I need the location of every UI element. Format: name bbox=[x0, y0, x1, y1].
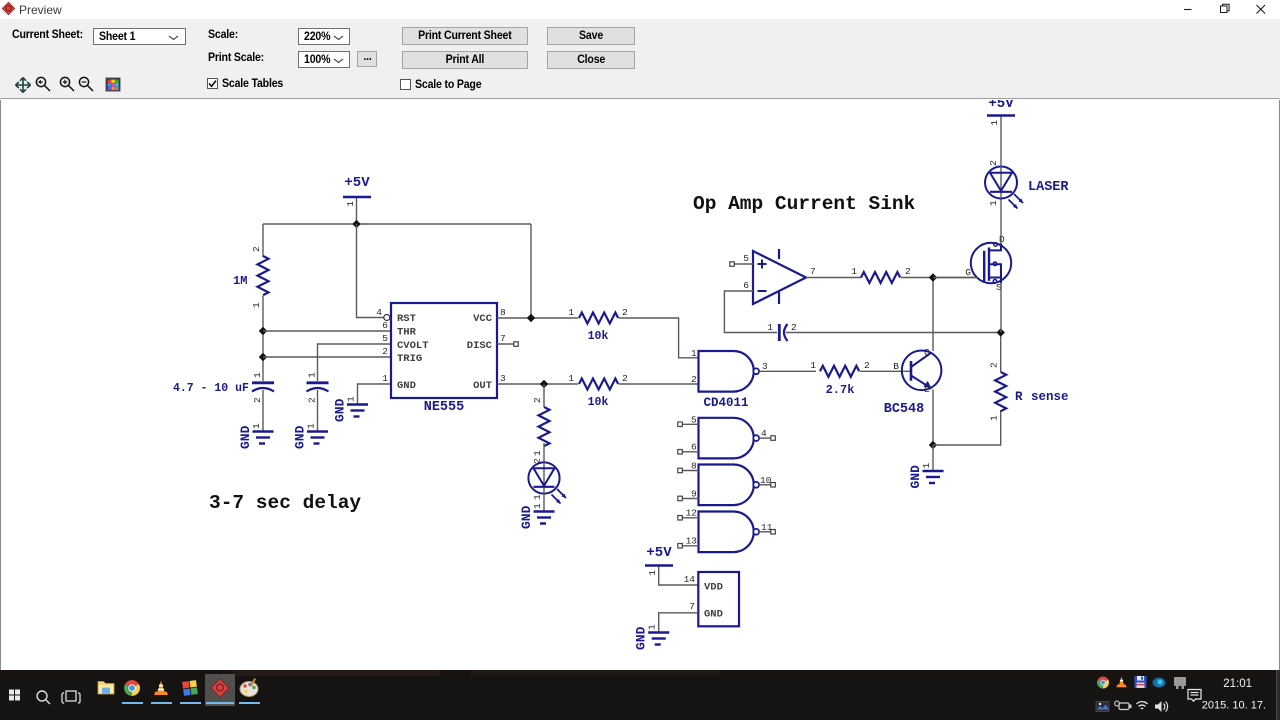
svg-text:1: 1 bbox=[647, 570, 658, 576]
svg-text:LASER: LASER bbox=[1028, 180, 1069, 195]
wire C3 to source node bbox=[786, 332, 1001, 334]
tray icon chrome bbox=[1097, 676, 1109, 688]
svg-text:10: 10 bbox=[760, 475, 772, 486]
junction top rail / +5V bbox=[352, 220, 360, 228]
wire Q2 drain to laser bbox=[1000, 198, 1002, 244]
svg-text:2.7k: 2.7k bbox=[826, 383, 855, 397]
power +5V (555 section) bbox=[343, 175, 371, 207]
svg-text:7: 7 bbox=[689, 601, 695, 612]
svg-text:1: 1 bbox=[988, 200, 999, 206]
svg-text:CD4011: CD4011 bbox=[703, 396, 748, 410]
svg-text:C: C bbox=[924, 347, 930, 358]
wire 555 GND pin bbox=[358, 384, 392, 404]
svg-text:VCC: VCC bbox=[473, 313, 493, 325]
svg-text:3: 3 bbox=[500, 373, 506, 384]
svg-text:1: 1 bbox=[532, 494, 543, 500]
svg-text:2: 2 bbox=[905, 266, 911, 277]
resistor R4 bbox=[532, 397, 550, 456]
vlc icon bbox=[154, 681, 168, 696]
svg-text:10k: 10k bbox=[588, 330, 609, 343]
svg-text:E: E bbox=[924, 384, 930, 395]
svg-text:1: 1 bbox=[989, 415, 1000, 421]
transistor Q2 MOSFET bbox=[965, 234, 1011, 293]
svg-text:3-7 sec delay: 3-7 sec delay bbox=[209, 492, 361, 514]
power +5V (laser) bbox=[987, 96, 1015, 126]
wire ground drop Q1 bbox=[932, 445, 934, 471]
notification center icon bbox=[1188, 690, 1201, 702]
svg-text:VDD: VDD bbox=[704, 582, 723, 594]
svg-text:2: 2 bbox=[532, 397, 543, 403]
junction VCC bbox=[527, 314, 535, 322]
no-connect stub DISC bbox=[514, 342, 519, 347]
svg-text:21:01: 21:01 bbox=[1223, 678, 1252, 690]
svg-text:B: B bbox=[893, 361, 899, 372]
svg-text:2: 2 bbox=[622, 373, 628, 384]
resistor R6 R sense bbox=[989, 362, 1069, 421]
IC U1 NE555 bbox=[376, 303, 506, 415]
svg-text:THR: THR bbox=[397, 327, 417, 339]
svg-text:2: 2 bbox=[622, 307, 628, 318]
svg-text:5: 5 bbox=[743, 253, 749, 264]
svg-text:5: 5 bbox=[691, 415, 697, 426]
svg-text:GND: GND bbox=[238, 425, 253, 449]
svg-text:1: 1 bbox=[851, 266, 857, 277]
wire op-amp +input stub bbox=[734, 263, 753, 265]
wire top rail bbox=[263, 223, 531, 225]
task view icon bbox=[62, 691, 80, 704]
wire R2 to gate pin1 bbox=[619, 318, 699, 358]
wire OUT net bbox=[497, 383, 578, 385]
svg-text:GND: GND bbox=[519, 505, 534, 529]
svg-text:1: 1 bbox=[568, 307, 574, 318]
junction source node bbox=[997, 328, 1005, 336]
tray icon eye bbox=[1153, 678, 1166, 688]
tray icon speaker bbox=[1155, 701, 1168, 712]
wire R sense top to source node bbox=[1000, 333, 1002, 372]
wire LED to ground bbox=[543, 494, 545, 511]
svg-text:11: 11 bbox=[761, 522, 773, 533]
svg-text:+5V: +5V bbox=[988, 100, 1014, 112]
wire Q1 collector up bbox=[932, 278, 934, 352]
svg-text:GND: GND bbox=[634, 626, 649, 650]
wire Q2 source down bbox=[1000, 283, 1002, 333]
svg-text:1: 1 bbox=[307, 372, 318, 378]
no-connect stub +input bbox=[730, 262, 735, 267]
svg-text:10k: 10k bbox=[588, 396, 609, 409]
capacitor C2 bbox=[307, 372, 329, 403]
wire emitter to R sense bottom bbox=[933, 410, 1001, 445]
power +5V (CD4011) bbox=[645, 545, 673, 576]
junction TRIG node bbox=[259, 353, 267, 361]
svg-text:6: 6 bbox=[382, 320, 388, 331]
tray icon vlc bbox=[1116, 677, 1126, 688]
svg-text:+5V: +5V bbox=[646, 545, 672, 561]
wire R4 to LED bbox=[543, 443, 545, 463]
svg-text:BC548: BC548 bbox=[884, 402, 925, 417]
wire DISC stub bbox=[497, 343, 514, 345]
svg-text:2015. 10. 17.: 2015. 10. 17. bbox=[1202, 700, 1266, 712]
wire C2 to ground bbox=[317, 390, 319, 431]
wire R1 to caps column bbox=[262, 296, 264, 381]
wire THR bbox=[263, 330, 391, 332]
svg-text:6: 6 bbox=[743, 280, 749, 291]
svg-text:2: 2 bbox=[988, 160, 999, 166]
svg-text:G: G bbox=[965, 267, 971, 278]
wire +5V stub down bbox=[356, 198, 358, 224]
wire +5V to VDD pin14 bbox=[659, 567, 698, 586]
svg-text:CVOLT: CVOLT bbox=[397, 340, 429, 352]
NAND gate U2B bbox=[678, 415, 776, 459]
wire gate1 output to R5 bbox=[759, 370, 816, 372]
svg-text:12: 12 bbox=[686, 508, 698, 519]
junction gate node bbox=[929, 273, 937, 281]
resistor R5 2.7k bbox=[810, 360, 870, 397]
op-amp U3 bbox=[743, 249, 815, 304]
wire R5 to Q1 base bbox=[860, 370, 910, 372]
svg-text:2: 2 bbox=[791, 322, 797, 333]
svg-text:13: 13 bbox=[686, 536, 698, 547]
svg-text:7: 7 bbox=[810, 266, 816, 277]
search icon bbox=[37, 691, 50, 704]
svg-text:2: 2 bbox=[252, 397, 263, 403]
svg-text:1: 1 bbox=[532, 450, 543, 456]
ground GND (LED) bbox=[519, 503, 555, 529]
svg-text:OUT: OUT bbox=[473, 380, 492, 392]
transistor Q1 BC548 bbox=[884, 347, 942, 417]
svg-text:1: 1 bbox=[989, 120, 1000, 126]
IC U2 power pins VDD/GND bbox=[684, 572, 739, 626]
resistor R7 bbox=[851, 266, 911, 283]
wire Q1 emitter down bbox=[932, 390, 934, 446]
wire CVOLT bbox=[318, 344, 392, 381]
tray icon wifi bbox=[1137, 702, 1148, 709]
wire TRIG bbox=[263, 356, 391, 358]
capacitor C3 feedback bbox=[767, 322, 797, 341]
svg-text:D: D bbox=[999, 234, 1005, 245]
svg-text:8: 8 bbox=[500, 307, 506, 318]
svg-text:9: 9 bbox=[691, 489, 697, 500]
file explorer icon bbox=[98, 682, 114, 695]
svg-text:2: 2 bbox=[864, 360, 870, 371]
ground GND (C2) bbox=[293, 423, 329, 449]
NAND gate U2D bbox=[678, 508, 776, 553]
wire R3 to gate pin2 bbox=[619, 383, 699, 385]
wire op-amp output bbox=[806, 277, 861, 279]
svg-text:4.7 - 10 uF: 4.7 - 10 uF bbox=[173, 382, 249, 395]
chrome icon bbox=[124, 680, 140, 696]
LED D2 LASER bbox=[985, 160, 1069, 209]
start button bbox=[9, 690, 20, 701]
ground GND (555) bbox=[333, 396, 369, 422]
ground GND (C1) bbox=[238, 423, 274, 449]
svg-text:1: 1 bbox=[810, 360, 816, 371]
svg-text:2: 2 bbox=[989, 362, 1000, 368]
svg-text:2: 2 bbox=[307, 397, 318, 403]
wire OUT to R4 bbox=[543, 384, 545, 407]
LED D1 bbox=[528, 458, 566, 504]
svg-text:2: 2 bbox=[532, 458, 543, 464]
wire laser to +5V bbox=[1000, 116, 1002, 167]
svg-text:2: 2 bbox=[691, 374, 697, 385]
resistor R1 1M bbox=[233, 246, 269, 308]
wire GND pin7 bbox=[659, 613, 698, 632]
svg-text:Op Amp Current Sink: Op Amp Current Sink bbox=[693, 193, 916, 215]
svg-text:6: 6 bbox=[691, 442, 697, 453]
active app highlight + red diamond icon bbox=[205, 674, 235, 706]
show desktop sliver bbox=[1277, 670, 1280, 720]
svg-text:DISC: DISC bbox=[467, 340, 493, 352]
svg-text:NE555: NE555 bbox=[424, 400, 465, 415]
wire R7 to gate node bbox=[901, 277, 977, 279]
capacitor C1 4.7-10uF bbox=[173, 372, 274, 403]
svg-text:+5V: +5V bbox=[344, 175, 370, 191]
ground GND (U2) bbox=[634, 624, 670, 650]
wire VCC net bbox=[497, 317, 578, 319]
svg-text:4: 4 bbox=[376, 307, 382, 318]
svg-text:1: 1 bbox=[568, 373, 574, 384]
junction emitter / R sense bbox=[929, 441, 937, 449]
svg-text:Rsense: Rsense bbox=[1015, 390, 1069, 404]
NAND gate U2A CD4011 bbox=[691, 348, 768, 410]
svg-text:4: 4 bbox=[761, 428, 767, 439]
paint palette icon bbox=[240, 678, 258, 696]
svg-text:3: 3 bbox=[762, 361, 768, 372]
svg-text:1: 1 bbox=[767, 322, 773, 333]
svg-text:1M: 1M bbox=[233, 274, 247, 288]
svg-text:GND: GND bbox=[333, 398, 348, 422]
svg-text:GND: GND bbox=[397, 380, 416, 392]
open app underlines bbox=[122, 702, 260, 704]
ground GND (Q1) bbox=[908, 463, 944, 489]
svg-text:8: 8 bbox=[691, 461, 697, 472]
svg-text:1: 1 bbox=[252, 372, 263, 378]
resistor R2 10k bbox=[568, 307, 628, 343]
svg-text:1: 1 bbox=[691, 348, 697, 359]
resistor R3 10k bbox=[568, 373, 628, 409]
junction THR node bbox=[259, 327, 267, 335]
wire rail to R1 bbox=[262, 224, 264, 257]
svg-text:2: 2 bbox=[251, 246, 262, 252]
svg-text:1: 1 bbox=[251, 302, 262, 308]
NAND gate U2C bbox=[678, 461, 776, 506]
tray icon picture bbox=[1096, 702, 1109, 712]
tray icon floppy bbox=[1135, 676, 1147, 688]
wire gate node to Q2 bbox=[933, 277, 977, 279]
wire C1 to ground bbox=[262, 390, 264, 431]
svg-text:1: 1 bbox=[345, 201, 356, 207]
photos tiles icon bbox=[182, 680, 198, 696]
svg-text:GND: GND bbox=[293, 425, 308, 449]
svg-text:TRIG: TRIG bbox=[397, 353, 422, 365]
tray icon monitor bbox=[1174, 677, 1186, 689]
wire RST bbox=[357, 224, 384, 318]
tray icon power plug bbox=[1115, 701, 1132, 709]
svg-text:GND: GND bbox=[704, 609, 723, 621]
svg-text:1: 1 bbox=[382, 373, 388, 384]
svg-text:2: 2 bbox=[382, 346, 388, 357]
wire op-amp -input feedback bbox=[724, 291, 777, 333]
svg-text:5: 5 bbox=[382, 333, 388, 344]
svg-text:14: 14 bbox=[684, 574, 696, 585]
svg-text:7: 7 bbox=[500, 333, 506, 344]
svg-text:RST: RST bbox=[397, 313, 416, 325]
junction OUT bbox=[540, 380, 548, 388]
svg-text:GND: GND bbox=[908, 465, 923, 489]
wire VCC drop bbox=[530, 224, 532, 318]
